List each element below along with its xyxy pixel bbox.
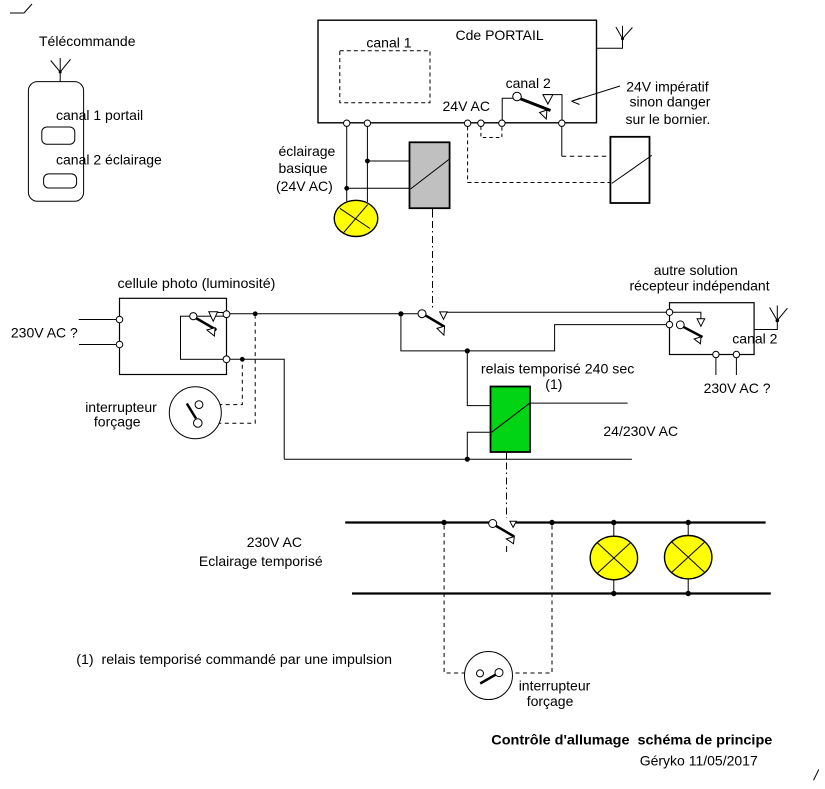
switch S2 canal2 pivot circle bbox=[513, 92, 522, 101]
terminal circle bbox=[464, 120, 470, 126]
svg-text:24V impératif: 24V impératif bbox=[626, 78, 709, 94]
switch S3 photocell fixed triangle bbox=[209, 312, 218, 322]
forçage 2 switch lever bbox=[480, 673, 498, 683]
junction dot bbox=[344, 186, 349, 191]
svg-text:canal 2: canal 2 bbox=[506, 75, 551, 91]
relay K2 diagonal bbox=[612, 155, 652, 183]
svg-text:Télécommande: Télécommande bbox=[39, 33, 136, 49]
junction dot node B bbox=[398, 311, 403, 316]
photocell inner contact box bbox=[181, 316, 227, 359]
antenna A3 link wire bbox=[754, 306, 777, 330]
switch S5 fixed triangle bbox=[510, 521, 517, 527]
antenna A3 V arms bbox=[770, 308, 788, 321]
terminal circle bbox=[116, 341, 123, 348]
switch S4 lever bbox=[425, 315, 444, 326]
wire 230V feed a bbox=[715, 358, 717, 375]
svg-text:éclairage: éclairage bbox=[279, 143, 336, 159]
dash-dot link K1 to switch S4 bbox=[432, 221, 434, 309]
receiver box autre solution bbox=[670, 303, 755, 355]
receiver box Cde PORTAIL bbox=[318, 20, 597, 123]
svg-text:forçage: forçage bbox=[94, 413, 141, 429]
dash-dot link K3 to switch S5 bbox=[506, 463, 508, 519]
svg-text:230V AC: 230V AC bbox=[247, 534, 302, 550]
lamp L2 (230V) bbox=[590, 536, 637, 580]
forçage contact circle bottom bbox=[194, 419, 203, 428]
svg-text:Eclairage temporisé: Eclairage temporisé bbox=[199, 553, 323, 569]
terminal circle bbox=[344, 120, 350, 126]
junction dot node A bbox=[253, 311, 258, 316]
wire stub to relay K1 bottom bbox=[347, 187, 410, 189]
wire S4 branch down and right bbox=[401, 314, 666, 351]
lamp L3 feed wires bbox=[687, 524, 689, 537]
terminal circle bbox=[499, 120, 505, 126]
svg-text:récepteur indépendant: récepteur indépendant bbox=[630, 278, 770, 294]
svg-text:cellule photo (luminosité): cellule photo (luminosité) bbox=[118, 275, 276, 291]
wire below canal2 switch bbox=[561, 126, 563, 156]
photocell box bbox=[120, 298, 227, 374]
svg-text:(24V AC): (24V AC) bbox=[276, 178, 333, 194]
terminal circle bbox=[364, 120, 370, 126]
switch S4 pivot circle bbox=[418, 310, 426, 318]
dashed wire rail to forçage 2 right bbox=[513, 526, 552, 674]
wire to relay K3 coil top bbox=[467, 351, 490, 406]
switch S3 pivot circle bbox=[190, 313, 197, 320]
switch S5 lever arrow triangle bbox=[506, 537, 514, 544]
relay K1 diagonal bbox=[411, 159, 450, 189]
svg-text:sinon danger: sinon danger bbox=[630, 93, 711, 109]
wire 230V feed b bbox=[735, 358, 737, 375]
corner squiggle mark bbox=[10, 4, 32, 13]
terminal circle bbox=[223, 311, 230, 318]
junction dot bbox=[365, 159, 370, 164]
antenna A2 link wire bbox=[597, 26, 623, 49]
relay K3 right stub wire bbox=[530, 402, 628, 404]
terminal circle bbox=[666, 321, 672, 327]
terminal circle bbox=[733, 351, 739, 357]
svg-text:canal 2: canal 2 bbox=[732, 330, 777, 346]
interrupteur forçage circle 1 bbox=[169, 387, 221, 439]
antenna A2 V arms bbox=[616, 27, 633, 39]
switch S4 central: fixed triangle bbox=[440, 312, 448, 319]
relay K3 timer box (green) bbox=[491, 387, 531, 453]
svg-text:230V AC ?: 230V AC ? bbox=[704, 380, 771, 396]
top lighting rail right segment bbox=[516, 521, 766, 523]
junction dot node D bbox=[465, 348, 470, 353]
junction dot bbox=[441, 520, 446, 525]
terminal circle bbox=[559, 120, 565, 126]
switch S2 canal2 lever arrow triangle bbox=[540, 110, 547, 119]
switch S2 canal2 right leg wire bbox=[543, 95, 562, 120]
slash mark bottom right bbox=[814, 770, 819, 781]
svg-text:canal 1 portail: canal 1 portail bbox=[56, 107, 143, 123]
wire photocell lower output bbox=[230, 359, 284, 459]
svg-text:(1): (1) bbox=[545, 376, 562, 392]
switch S5 lever bbox=[495, 526, 514, 537]
svg-text:canal 1: canal 1 bbox=[366, 34, 411, 50]
switch S4 lever arrow triangle bbox=[437, 326, 445, 335]
forçage contact circle top bbox=[195, 401, 203, 409]
annotation arrow to switch bbox=[572, 86, 621, 101]
forçage 2 contact circle left bbox=[477, 670, 484, 677]
wire lamp feed right bbox=[366, 126, 368, 202]
antenna A1 mast (remote) bbox=[59, 58, 61, 82]
remote button 2 bbox=[44, 174, 77, 188]
switch S5 pivot circle bbox=[489, 520, 497, 528]
junction dot bbox=[611, 520, 616, 525]
lamp L1 (24V) bbox=[334, 200, 378, 236]
dashed wire to relay K2 top bbox=[562, 155, 611, 157]
terminal circle bbox=[223, 356, 230, 363]
forçage switch lever bbox=[187, 404, 196, 419]
wire to relay K3 coil bottom bbox=[467, 432, 490, 459]
bottom lighting rail bbox=[352, 592, 771, 594]
switch S6 lever arrow triangle bbox=[694, 337, 701, 344]
main wire photocell to switch S4 bbox=[230, 313, 418, 315]
svg-text:24V AC: 24V AC bbox=[443, 98, 490, 114]
switch S6 hook wire bbox=[673, 312, 701, 318]
relay K1 coil box (gray) bbox=[410, 142, 450, 208]
switch S6 fixed triangle bbox=[697, 319, 705, 327]
wire lamp feed left bbox=[346, 126, 348, 201]
svg-text:24/230V AC: 24/230V AC bbox=[603, 423, 678, 439]
junction dot node E bbox=[465, 457, 470, 462]
remote button 1 bbox=[42, 127, 75, 144]
relay K1 bottom stub bbox=[432, 208, 434, 217]
relay canal 1 dashed box bbox=[340, 51, 430, 103]
antenna A1 V arms bbox=[51, 59, 71, 72]
terminal circle bbox=[478, 120, 484, 126]
junction dot node C bbox=[240, 357, 245, 362]
terminal circle bbox=[116, 316, 123, 323]
switch S3 lever arrow triangle bbox=[207, 328, 215, 336]
wire S4 to right receiver box bbox=[447, 311, 666, 313]
switch S6 lever bbox=[682, 326, 703, 337]
svg-text:(1) relais temporisé commandé: (1) relais temporisé commandé par une im… bbox=[76, 651, 392, 667]
switch S6 pivot circle bbox=[676, 321, 684, 329]
lamp L3 (230V) bbox=[665, 536, 712, 579]
switch S2 canal2 fixed contact triangle bbox=[543, 95, 553, 104]
top lighting rail left segment bbox=[345, 521, 490, 523]
dashed wire forçage lower bbox=[202, 317, 255, 424]
svg-text:230V AC ?: 230V AC ? bbox=[11, 325, 78, 341]
lamp L2 feed wires bbox=[613, 524, 615, 537]
terminal circle bbox=[666, 309, 672, 315]
switch S3 lever bbox=[195, 318, 217, 331]
terminal circle bbox=[713, 351, 719, 357]
remote control body bbox=[28, 82, 83, 202]
junction dot bbox=[611, 591, 616, 596]
svg-text:autre solution: autre solution bbox=[654, 262, 738, 278]
relay K3 bottom stub bbox=[506, 452, 508, 459]
dashed wire rail to forçage 2 left bbox=[444, 526, 464, 674]
svg-text:Contrôle d'allumage schéma de: Contrôle d'allumage schéma de principe bbox=[491, 732, 772, 748]
junction dot bbox=[686, 591, 691, 596]
svg-text:forçage: forçage bbox=[527, 693, 574, 709]
dashed wire forçage upper bbox=[203, 362, 242, 405]
junction dot bbox=[549, 520, 554, 525]
interrupteur forçage circle 2 bbox=[465, 652, 513, 700]
wire 230V input bottom bbox=[79, 344, 116, 346]
forçage 2 contact circle right bbox=[495, 669, 503, 677]
svg-text:canal 2 éclairage: canal 2 éclairage bbox=[56, 152, 162, 168]
svg-text:Géryko 11/05/2017: Géryko 11/05/2017 bbox=[640, 752, 758, 768]
svg-text:Cde PORTAIL: Cde PORTAIL bbox=[456, 27, 544, 43]
junction dot bbox=[686, 520, 691, 525]
wire 230V input top bbox=[79, 319, 117, 321]
svg-text:relais temporisé 240 sec: relais temporisé 240 sec bbox=[481, 361, 634, 377]
svg-text:sur le bornier.: sur le bornier. bbox=[626, 111, 711, 127]
switch S2 canal2 lever bbox=[519, 98, 551, 111]
wire stub to relay K1 top bbox=[367, 160, 409, 162]
relay K3 diagonal bbox=[492, 403, 530, 432]
dashed wire terminal to relay K2 bottom bbox=[468, 126, 611, 182]
svg-text:interrupteur: interrupteur bbox=[519, 678, 591, 694]
relay K2 coil box (white) bbox=[610, 137, 649, 203]
bottom feed rail bbox=[284, 458, 632, 460]
svg-text:basique: basique bbox=[279, 160, 328, 176]
dashed U link 24V AC terminals bbox=[481, 126, 502, 137]
switch S2 canal2 left leg wire bbox=[502, 98, 513, 120]
